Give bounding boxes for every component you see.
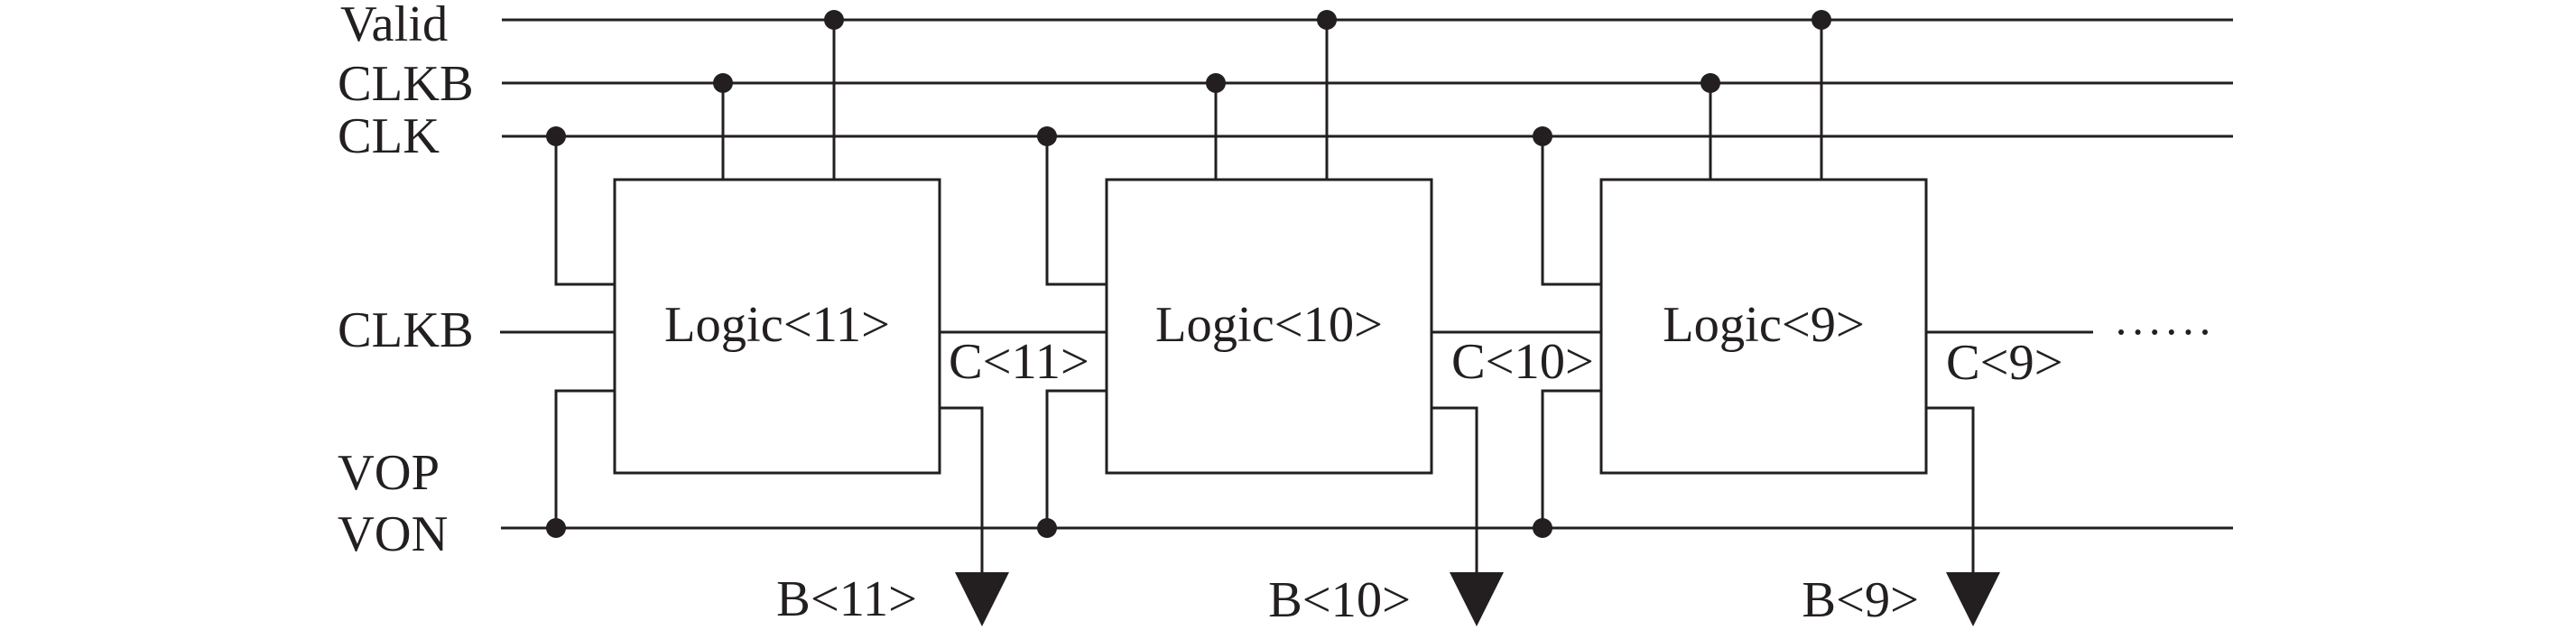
svg-text:VON: VON xyxy=(338,506,448,562)
wire B9 output xyxy=(1926,408,1973,578)
svg-text:CLKB: CLKB xyxy=(338,302,474,358)
wire CLKB input to Logic11 xyxy=(500,331,615,334)
wire CLKB bus xyxy=(502,82,2233,85)
wire C10 net xyxy=(1432,331,1601,334)
wire C9 net xyxy=(1926,331,2093,334)
svg-text:C<11>: C<11> xyxy=(949,334,1089,390)
junction CLKB-Logic11 xyxy=(713,73,733,93)
junction CLK-Logic10 xyxy=(1037,126,1057,146)
wire CLK tap to Logic11 xyxy=(556,136,615,284)
wire C11 net xyxy=(940,331,1107,334)
block U1 Logic11 xyxy=(615,180,940,473)
svg-text:C<9>: C<9> xyxy=(1946,335,2063,391)
wire VON tap to Logic9 xyxy=(1543,391,1601,528)
wire CLKB tap to Logic11 xyxy=(722,83,725,180)
wire B10 output xyxy=(1432,408,1477,578)
wire Valid bus xyxy=(502,19,2233,22)
wire CLKB tap to Logic9 xyxy=(1710,83,1712,180)
wire Valid tap to Logic11 xyxy=(833,20,836,180)
junction VON-Logic9 xyxy=(1533,518,1552,538)
svg-text:Logic<11>: Logic<11> xyxy=(664,297,890,353)
svg-text:CLK: CLK xyxy=(338,108,440,164)
block U3 Logic9 xyxy=(1601,180,1926,473)
svg-text:B<11>: B<11> xyxy=(776,571,917,627)
junction VON-Logic11 xyxy=(546,518,566,538)
svg-text:B<9>: B<9> xyxy=(1802,572,1919,628)
junction CLK-Logic9 xyxy=(1533,126,1552,146)
junction CLKB-Logic9 xyxy=(1700,73,1720,93)
arrow B10 xyxy=(1450,572,1504,626)
arrow B11 xyxy=(955,572,1009,626)
junction Valid-Logic10 xyxy=(1317,10,1337,30)
svg-text:Logic<10>: Logic<10> xyxy=(1155,297,1383,353)
wire CLKB tap to Logic10 xyxy=(1215,83,1218,180)
junction CLKB-Logic10 xyxy=(1206,73,1226,93)
wire Valid tap to Logic9 xyxy=(1821,20,1823,180)
junction CLK-Logic11 xyxy=(546,126,566,146)
arrow B9 xyxy=(1946,572,2000,626)
wire CLK tap to Logic10 xyxy=(1047,136,1107,284)
junction Valid-Logic9 xyxy=(1812,10,1831,30)
block U2 Logic10 xyxy=(1107,180,1432,473)
wire VON bus xyxy=(501,527,2233,530)
svg-text:VOP: VOP xyxy=(338,445,440,501)
wire VON tap to Logic11 xyxy=(556,391,615,528)
junction VON-Logic10 xyxy=(1037,518,1057,538)
wire B11 output xyxy=(940,408,982,578)
svg-text:C<10>: C<10> xyxy=(1451,334,1594,390)
svg-text:CLKB: CLKB xyxy=(338,56,474,112)
svg-text:B<10>: B<10> xyxy=(1268,572,1411,628)
wire CLK bus xyxy=(502,135,2233,138)
svg-text:Logic<9>: Logic<9> xyxy=(1663,297,1865,353)
svg-text:Valid: Valid xyxy=(340,0,448,52)
wire VON tap to Logic10 xyxy=(1047,391,1107,528)
junction Valid-Logic11 xyxy=(824,10,844,30)
ellipsis continuation dots xyxy=(2118,329,2208,335)
wire Valid tap to Logic10 xyxy=(1326,20,1329,180)
wire CLK tap to Logic9 xyxy=(1543,136,1601,284)
